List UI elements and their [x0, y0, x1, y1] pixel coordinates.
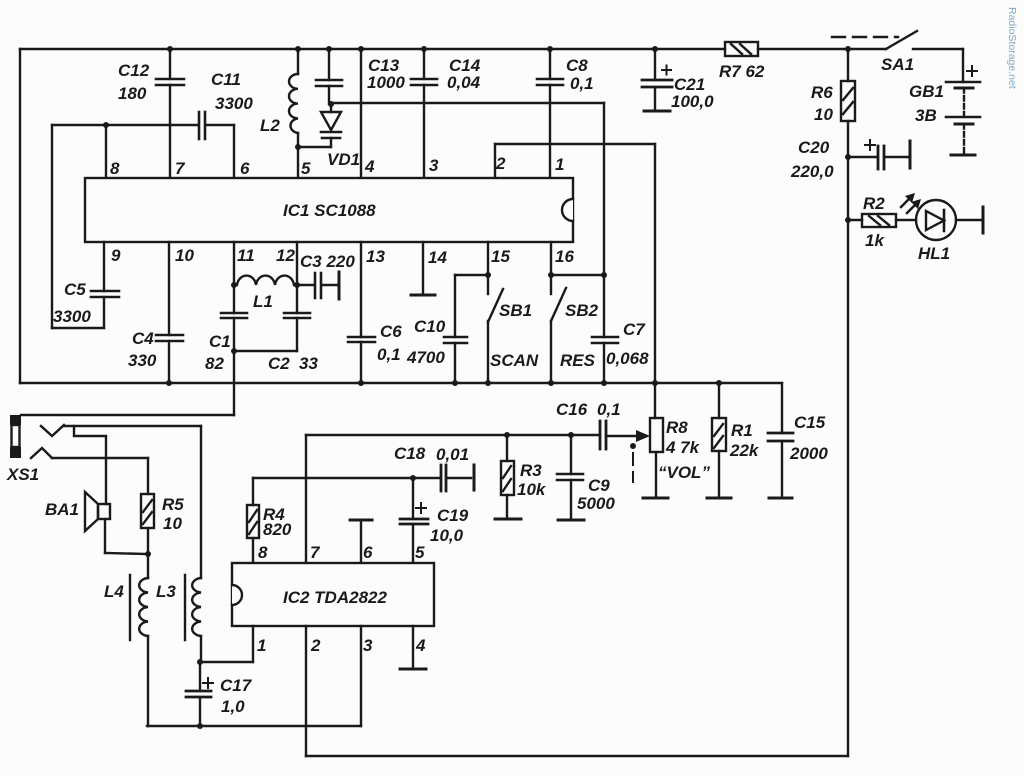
- svg-text:12: 12: [276, 246, 295, 265]
- jack contact upper: [41, 425, 64, 436]
- capacitor C2: [268, 242, 318, 373]
- wire IC2 pin1 to L3/C17 node: [252, 626, 254, 662]
- switch SB2: [548, 242, 599, 383]
- svg-text:10k: 10k: [517, 480, 547, 499]
- resistor R4: [247, 478, 292, 563]
- resistor R5: [141, 494, 184, 557]
- svg-text:C5: C5: [64, 280, 86, 299]
- svg-text:6: 6: [363, 543, 373, 562]
- IC U2 IC2 TDA2822: [232, 563, 434, 626]
- node pin12: [294, 282, 300, 288]
- node L3/C17/pin1: [197, 659, 203, 665]
- capacitor C1: [205, 242, 247, 373]
- svg-text:0,1: 0,1: [377, 345, 401, 364]
- svg-text:L4: L4: [104, 582, 124, 601]
- svg-text:82: 82: [205, 354, 224, 373]
- pin numbers IC2 bottom: [257, 636, 426, 655]
- svg-text:R3: R3: [520, 461, 542, 480]
- svg-text:3B: 3B: [915, 106, 937, 125]
- capacitor C3: [297, 252, 355, 299]
- svg-text:R5: R5: [162, 495, 184, 514]
- capacitor C10: [406, 275, 488, 383]
- svg-text:C9: C9: [588, 476, 610, 495]
- switch SA1: [832, 31, 917, 74]
- svg-text:IC2 TDA2822: IC2 TDA2822: [283, 588, 387, 607]
- svg-text:C20: C20: [798, 138, 830, 157]
- svg-text:15: 15: [491, 247, 510, 266]
- capacitor C18: [394, 444, 474, 491]
- svg-text:10: 10: [175, 246, 194, 265]
- capacitor C17 electrolytic: [186, 662, 253, 726]
- svg-text:R8: R8: [666, 418, 688, 437]
- pin numbers IC2 top: [258, 543, 425, 562]
- svg-text:GB1: GB1: [909, 82, 944, 101]
- capacitor C21 electrolytic: [642, 49, 714, 111]
- svg-text:C16: C16: [556, 400, 588, 419]
- resistor R7: [719, 42, 765, 81]
- speaker BA1: [45, 492, 148, 554]
- svg-text:BA1: BA1: [45, 500, 79, 519]
- svg-text:C15: C15: [794, 413, 826, 432]
- resistor R6: [811, 49, 855, 124]
- IC op U1 IC1 SC1088: [85, 178, 573, 242]
- svg-text:820: 820: [263, 520, 292, 539]
- svg-text:R1: R1: [731, 421, 753, 440]
- potentiometer R8: [630, 418, 710, 498]
- svg-text:0,068: 0,068: [606, 349, 649, 368]
- svg-text:3: 3: [363, 636, 373, 655]
- capacitor C14: [411, 49, 481, 178]
- wire jack feed from C1/C2 node: [233, 351, 235, 415]
- wire right vertical rail: [847, 121, 849, 756]
- node C17 bottom: [197, 723, 203, 729]
- pin14 open terminal: [411, 242, 435, 295]
- svg-text:C18: C18: [394, 444, 426, 463]
- svg-text:VD1: VD1: [327, 150, 360, 169]
- capacitor C15: [768, 383, 828, 498]
- LED HL1: [896, 193, 983, 263]
- battery GB1: [909, 49, 980, 155]
- svg-text:C19: C19: [437, 506, 469, 525]
- wire speaker branch: [74, 426, 106, 504]
- svg-text:330: 330: [128, 351, 157, 370]
- wire pin8 to C11 line: [105, 125, 107, 178]
- capacitor C6: [348, 242, 402, 383]
- svg-text:C8: C8: [566, 56, 588, 75]
- svg-text:1k: 1k: [865, 231, 885, 250]
- svg-text:7: 7: [310, 543, 321, 562]
- svg-text:0,04: 0,04: [447, 73, 481, 92]
- capacitor C20 electrolytic: [790, 138, 910, 181]
- svg-text:4700: 4700: [406, 348, 445, 367]
- diode VD1 varicap: [321, 101, 360, 169]
- svg-text:0,1: 0,1: [597, 400, 621, 419]
- svg-text:8: 8: [258, 543, 268, 562]
- svg-text:SCAN: SCAN: [490, 351, 539, 370]
- svg-text:4 7k: 4 7k: [665, 438, 701, 457]
- node pin5/L2/VD1: [295, 144, 301, 150]
- inductor L2: [260, 49, 298, 147]
- wire pin16 to C7: [551, 274, 604, 276]
- wire IC2 pin3 down: [360, 626, 362, 726]
- capacitor C13: [316, 49, 405, 104]
- svg-text:4: 4: [364, 157, 375, 176]
- svg-text:10,0: 10,0: [430, 526, 464, 545]
- jack XS1: [6, 415, 39, 484]
- svg-text:C12: C12: [118, 61, 150, 80]
- svg-text:XS1: XS1: [6, 465, 39, 484]
- resistor R2: [845, 194, 896, 250]
- svg-text:4: 4: [415, 636, 426, 655]
- svg-text:9: 9: [111, 246, 121, 265]
- wire bottom ground rail of RF box: [20, 382, 782, 384]
- svg-text:180: 180: [118, 84, 147, 103]
- capacitor C16: [556, 400, 650, 449]
- svg-text:6: 6: [240, 159, 250, 178]
- capacitor C5: [53, 242, 119, 328]
- resistor R3: [495, 432, 547, 519]
- svg-text:22k: 22k: [729, 441, 760, 460]
- capacitor C11: [52, 70, 253, 178]
- svg-text:5000: 5000: [577, 494, 615, 513]
- capacitor C4: [128, 242, 183, 383]
- svg-text:L1: L1: [253, 292, 273, 311]
- svg-text:C3 220: C3 220: [300, 252, 355, 271]
- jack contact lower: [31, 448, 52, 458]
- switch SB1: [485, 242, 539, 383]
- wire IC2 pin2 down: [305, 626, 307, 756]
- svg-text:3: 3: [429, 156, 439, 175]
- wire tuning bus to pin16 region: [331, 102, 604, 104]
- svg-text:L3: L3: [156, 582, 176, 601]
- svg-text:C2: C2: [268, 354, 290, 373]
- svg-text:16: 16: [555, 247, 574, 266]
- svg-text:R6: R6: [811, 83, 833, 102]
- svg-text:2: 2: [495, 154, 506, 173]
- wire pin2 audio out to volume: [494, 144, 496, 178]
- svg-text:C10: C10: [414, 317, 446, 336]
- capacitor C8: [537, 49, 594, 178]
- resistor R1: [707, 383, 760, 498]
- IC2 pin6 open terminal: [350, 520, 372, 563]
- node dots ground rail: [166, 380, 722, 386]
- svg-text:C7: C7: [623, 320, 646, 339]
- svg-text:10: 10: [163, 514, 182, 533]
- wire C5 loop left: [51, 125, 53, 328]
- inductor L4: [104, 554, 148, 726]
- svg-text:SA1: SA1: [881, 55, 914, 74]
- svg-text:2000: 2000: [789, 444, 828, 463]
- svg-text:C17: C17: [220, 676, 253, 695]
- wire pin4 supply: [360, 49, 362, 178]
- svg-text:7: 7: [175, 159, 186, 178]
- capacitor C9: [557, 432, 615, 520]
- svg-text:33: 33: [299, 354, 318, 373]
- svg-text:14: 14: [428, 248, 447, 267]
- wire top supply rail: [20, 48, 725, 50]
- svg-text:0,1: 0,1: [570, 74, 594, 93]
- wire R4/C18/C19 feedback line: [253, 477, 440, 479]
- svg-text:SB2: SB2: [565, 301, 599, 320]
- svg-text:1,0: 1,0: [221, 697, 245, 716]
- node C1/C2 bottom: [231, 348, 237, 354]
- svg-text:R7 62: R7 62: [719, 62, 765, 81]
- wire bottom rail to IC2 pin2: [306, 755, 848, 757]
- svg-text:SB1: SB1: [499, 301, 532, 320]
- pin numbers IC1 bottom: [111, 246, 574, 267]
- svg-text:L2: L2: [260, 116, 280, 135]
- svg-text:C4: C4: [132, 329, 154, 348]
- svg-text:C6: C6: [380, 322, 402, 341]
- IC2 pin4 open terminal: [400, 626, 426, 669]
- svg-text:IC1 SC1088: IC1 SC1088: [283, 201, 376, 220]
- node pin11: [231, 282, 237, 288]
- svg-text:C1: C1: [209, 332, 231, 351]
- svg-text:5: 5: [301, 159, 311, 178]
- wire speaker return line: [147, 725, 361, 727]
- svg-text:RadioStorage.net: RadioStorage.net: [1006, 7, 1018, 89]
- svg-text:5: 5: [415, 543, 425, 562]
- svg-text:1000: 1000: [367, 73, 405, 92]
- svg-text:10: 10: [814, 105, 833, 124]
- wire audio input line to IC2 pin7: [306, 434, 598, 436]
- svg-text:RES: RES: [560, 351, 596, 370]
- svg-text:HL1: HL1: [918, 244, 950, 263]
- capacitor C19 electrolytic: [400, 478, 469, 563]
- svg-text:2: 2: [310, 636, 321, 655]
- svg-text:0,01: 0,01: [436, 445, 469, 464]
- wire left edge of RF box: [19, 49, 21, 383]
- inductor L3: [156, 575, 201, 662]
- svg-text:3300: 3300: [53, 307, 91, 326]
- svg-text:3300: 3300: [215, 94, 253, 113]
- svg-text:C11: C11: [211, 70, 241, 89]
- node dots top rail: [167, 46, 851, 52]
- svg-text:13: 13: [366, 247, 385, 266]
- capacitor C7: [592, 275, 649, 383]
- svg-text:1: 1: [555, 155, 564, 174]
- svg-text:11: 11: [237, 246, 255, 265]
- svg-text:1: 1: [257, 636, 266, 655]
- svg-text:“VOL”: “VOL”: [658, 463, 710, 482]
- svg-text:R2: R2: [863, 194, 885, 213]
- svg-text:8: 8: [110, 159, 120, 178]
- svg-text:220,0: 220,0: [790, 162, 834, 181]
- svg-text:100,0: 100,0: [671, 92, 714, 111]
- capacitor C12: [118, 49, 184, 178]
- inductor L1: [237, 276, 294, 311]
- pin numbers IC1 top: [110, 154, 564, 178]
